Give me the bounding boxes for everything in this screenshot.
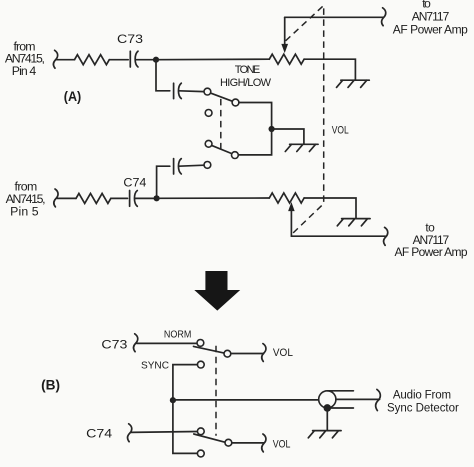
svg-text:TONE: TONE [235, 64, 261, 76]
break (C73 stub) [134, 334, 138, 352]
label Audio From Sync Detector [387, 390, 459, 415]
switch S2a arm [194, 346, 225, 353]
break (C74 stub) [128, 424, 132, 442]
switch gang dashed (A) [220, 99, 222, 151]
wire (jack shield to ground) [326, 411, 328, 430]
junction node (switch common) [269, 126, 275, 132]
break (VOL lower) [262, 434, 266, 452]
resistor (series, Pin 4 input) [75, 55, 110, 65]
wire (wiper to output) [285, 16, 384, 18]
input terminal label: from AN7415, Pin 4 [5, 40, 45, 78]
break (input Pin 5) [54, 189, 58, 207]
capacitor (tone, upper) [174, 83, 204, 98]
svg-text:Pin 4: Pin 4 [12, 64, 37, 78]
svg-text:AF Power Amp: AF Power Amp [395, 245, 468, 259]
svg-text:VOL: VOL [332, 124, 349, 136]
svg-text:C73: C73 [101, 339, 127, 351]
wire [157, 197, 270, 199]
svg-text:Sync Detector: Sync Detector [387, 403, 459, 415]
wire (S1a common to node) [239, 103, 272, 127]
ground (jack shield) [308, 431, 341, 438]
ground (top right) [337, 80, 370, 87]
switch S1a arm (TONE HIGH/LOW pole 1) [209, 92, 233, 101]
capacitor C74 [123, 177, 154, 206]
switch S2b arm [194, 434, 226, 442]
svg-text:(B): (B) [41, 377, 60, 392]
volume pot (bottom of section A) [269, 193, 304, 203]
wire [57, 197, 76, 199]
wire (node2 to tone cap, lower) [157, 166, 170, 198]
resistor (series, Pin 5 input) [76, 193, 111, 203]
label: to AN7117 AF Power Amp (top) [393, 0, 468, 36]
svg-text:SYNC: SYNC [141, 361, 169, 372]
wire (audio line to jack) [173, 399, 319, 401]
wire (wiper to output) [291, 235, 385, 237]
wire (node to ground) [272, 129, 304, 144]
break (to AN7117, bottom) [384, 227, 388, 245]
label TONE HIGH/LOW [220, 64, 272, 89]
input terminal label: from AN7415, Pin 5 [6, 180, 46, 219]
switch gang dashed (B) [215, 346, 217, 436]
switch S2a contacts [197, 340, 204, 347]
gang linkage dashed (top diagonal + vertical VOL shaft + bottom diagonal) [286, 5, 324, 233]
svg-text:C74: C74 [123, 177, 147, 189]
wire [109, 59, 128, 61]
svg-text:Audio From: Audio From [393, 390, 451, 402]
wire (pot right lead) [304, 198, 356, 218]
wire (C74 stub to NORM2 contact, crosses trunk) [131, 431, 198, 434]
wire (C73 stub to NORM contact) [137, 342, 197, 344]
wire (pot right lead) [304, 59, 355, 80]
svg-text:Pin 5: Pin 5 [10, 204, 39, 218]
svg-text:NORM: NORM [164, 330, 192, 341]
wiper (top VOL pot) [282, 17, 288, 52]
wiper (bottom VOL pot, points up) [289, 203, 294, 236]
junction node (audio bus) [170, 397, 176, 403]
svg-text:VOL: VOL [273, 347, 293, 359]
capacitor C73 [117, 34, 154, 67]
switch S1a contacts [204, 88, 211, 95]
switch S2b contacts [197, 428, 204, 435]
wire [156, 58, 269, 61]
wire (node to tone cap, upper) [156, 60, 170, 91]
switch S1b arm (pole 2) [210, 145, 232, 154]
break (audio from sync detector) [376, 389, 381, 410]
junction node (C74 / VOL pot / tone cap lower) [154, 195, 160, 201]
volume pot (top section) [269, 54, 304, 64]
wire (S2a common to VOL) [231, 353, 264, 355]
ground (center) [285, 144, 318, 151]
label: to AN7117 AF Power Amp (bottom) [395, 221, 468, 260]
svg-text:(A): (A) [64, 89, 82, 104]
svg-text:C74: C74 [86, 428, 113, 440]
svg-text:VOL: VOL [273, 438, 291, 450]
section divider arrow (solid black) [194, 271, 240, 311]
wire [57, 59, 75, 61]
svg-text:AF Power Amp: AF Power Amp [393, 23, 468, 37]
svg-text:HIGH/LOW: HIGH/LOW [220, 77, 272, 89]
wire (node to S1b common) [238, 129, 271, 155]
wire (S2b common to VOL) [232, 442, 264, 444]
break (to AN7117, top) [382, 8, 386, 26]
break (input Pin 4) [53, 50, 57, 68]
jack / connector (audio from sync detector) [319, 391, 380, 412]
break (VOL upper) [262, 344, 266, 362]
ground (lower right of A) [337, 219, 370, 226]
switch S1b contacts [205, 140, 212, 147]
svg-text:C73: C73 [117, 34, 143, 46]
wire (SYNC contact to trunk) [173, 365, 198, 401]
wire [111, 197, 128, 199]
junction node (C73 / VOL pot / tone cap) [153, 57, 159, 63]
capacitor (tone, lower) [174, 159, 204, 174]
wire (trunk down to SYNC2 contact) [173, 400, 198, 453]
